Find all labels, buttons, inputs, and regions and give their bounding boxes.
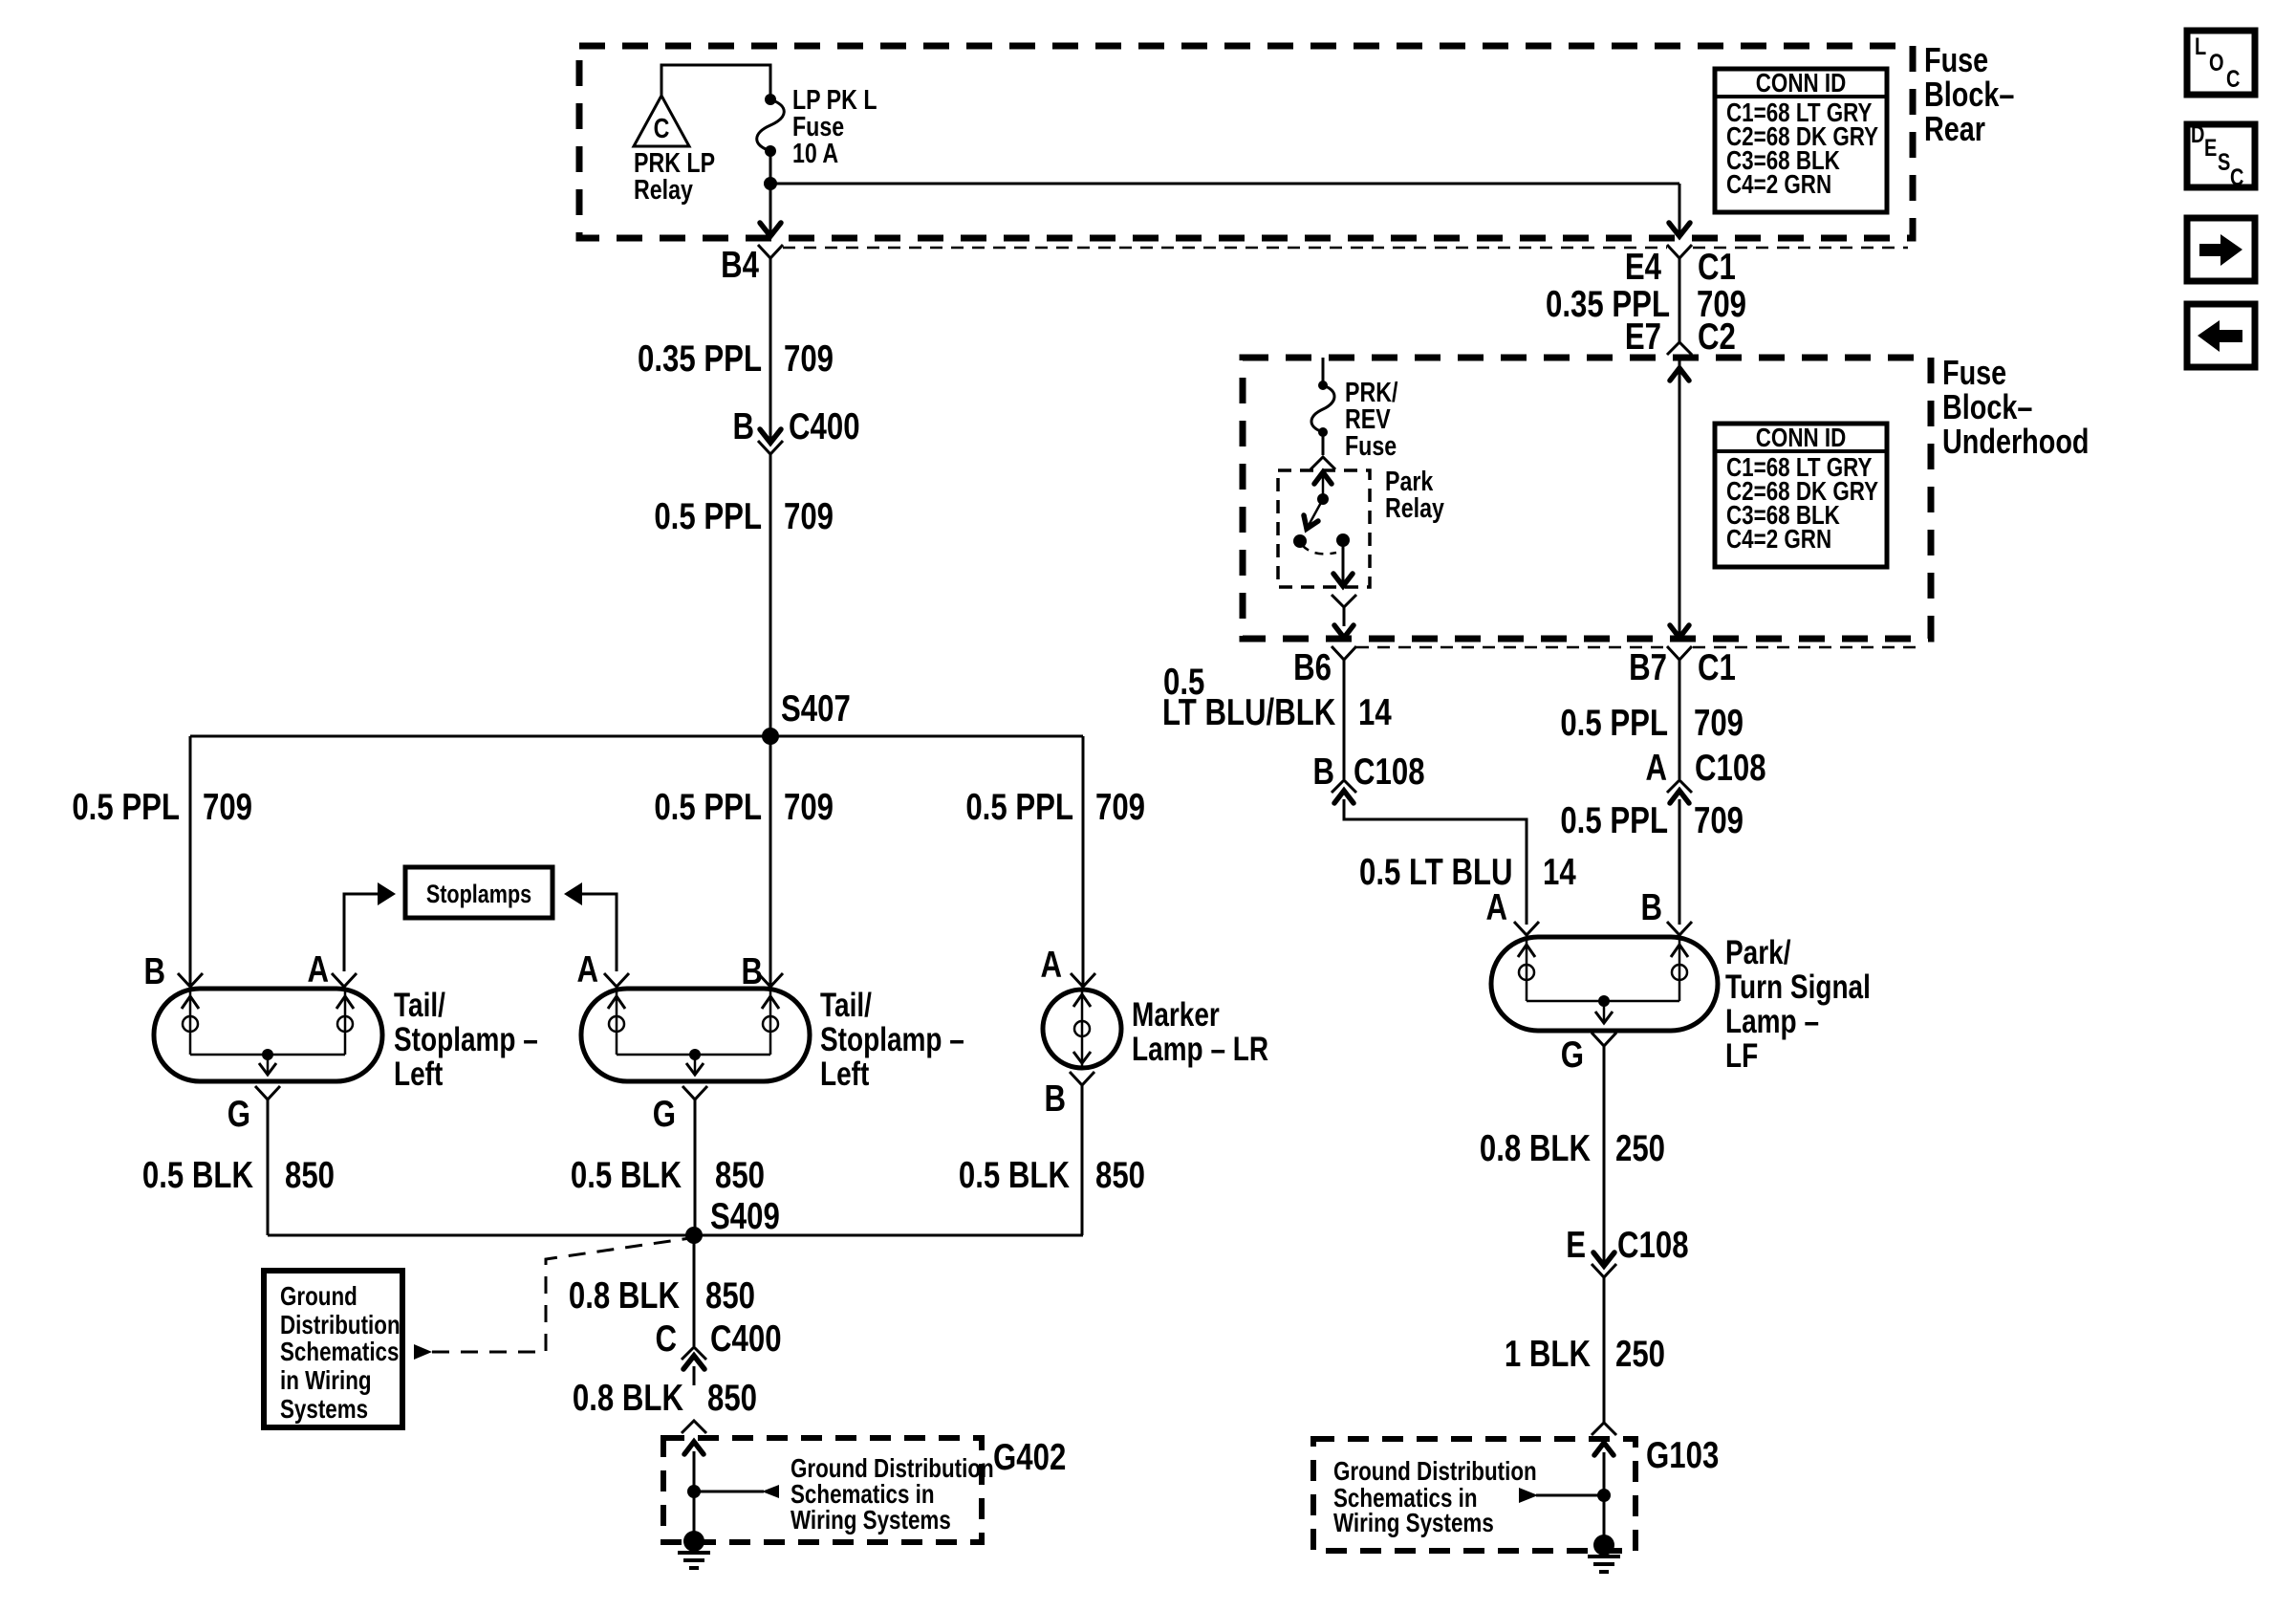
svg-text:in Wiring: in Wiring bbox=[280, 1366, 372, 1396]
svg-text:0.5 PPL: 0.5 PPL bbox=[1560, 800, 1668, 841]
wire: relay to fuse (top jog) bbox=[661, 65, 770, 99]
svg-text:S: S bbox=[2218, 149, 2230, 176]
connector B6 (female chevron) bbox=[1293, 646, 1356, 688]
wire: drop to E4 exit with arrow bbox=[1669, 184, 1690, 236]
svg-text:S407: S407 bbox=[781, 688, 851, 729]
svg-text:G: G bbox=[227, 1094, 250, 1135]
svg-text:G402: G402 bbox=[993, 1437, 1066, 1478]
icon: next arrow button bbox=[2187, 218, 2255, 281]
svg-text:CONN ID: CONN ID bbox=[1756, 424, 1847, 453]
svg-text:Distribution: Distribution bbox=[280, 1311, 401, 1340]
connector B4 (female chevron) bbox=[721, 245, 783, 286]
wire: B7 down, 0.5 PPL 709 bbox=[1560, 660, 1744, 779]
ground G103 (dashed box) bbox=[1313, 1435, 1719, 1551]
svg-text:0.5 PPL: 0.5 PPL bbox=[965, 787, 1073, 828]
svg-text:L: L bbox=[2195, 33, 2206, 60]
svg-text:Lamp – LR: Lamp – LR bbox=[1132, 1030, 1268, 1068]
terminal G lamp2 bbox=[653, 1086, 707, 1135]
wire: lamp2 G to S409, 0.5 BLK 850 bbox=[571, 1099, 765, 1235]
svg-text:C108: C108 bbox=[1617, 1225, 1689, 1266]
svg-text:B4: B4 bbox=[721, 245, 759, 286]
svg-text:D: D bbox=[2191, 121, 2204, 148]
svg-text:Stoplamps: Stoplamps bbox=[426, 881, 531, 909]
svg-text:250: 250 bbox=[1615, 1334, 1665, 1375]
ground G402 (dashed box) bbox=[663, 1437, 1066, 1542]
wire: C108 down to G103, 1 BLK 250 bbox=[1505, 1277, 1665, 1423]
connector B / C400 (arrow + chevron) bbox=[732, 406, 859, 454]
svg-text:14: 14 bbox=[1358, 692, 1392, 733]
lamp: tail/stoplamp - left (first) bbox=[154, 986, 538, 1093]
icon: LOC button bbox=[2187, 31, 2255, 95]
wire: fuse to junction bbox=[769, 151, 772, 184]
svg-text:14: 14 bbox=[1543, 852, 1576, 893]
svg-text:850: 850 bbox=[1095, 1155, 1145, 1196]
svg-text:709: 709 bbox=[1694, 800, 1744, 841]
svg-text:LT BLU/BLK: LT BLU/BLK bbox=[1162, 692, 1336, 733]
svg-text:G: G bbox=[1561, 1034, 1584, 1076]
svg-text:Systems: Systems bbox=[280, 1395, 368, 1425]
wire: lamp G down, 0.8 BLK 250 bbox=[1480, 1046, 1665, 1266]
svg-text:O: O bbox=[2209, 50, 2224, 76]
CONN ID table (rear) bbox=[1715, 69, 1887, 212]
fuse block - rear (dashed enclosure) bbox=[579, 46, 1913, 238]
wire: S409 down to C400, 0.8 BLK 850 bbox=[569, 1235, 755, 1346]
svg-text:LF: LF bbox=[1725, 1036, 1758, 1075]
svg-text:C108: C108 bbox=[1354, 751, 1425, 793]
connector chevron + arrow to underhood boundary bbox=[1332, 595, 1356, 638]
svg-text:Underhood: Underhood bbox=[1942, 422, 2089, 461]
connector chevron into G402 bbox=[682, 1421, 706, 1433]
svg-text:0.8 BLK: 0.8 BLK bbox=[569, 1275, 681, 1317]
svg-text:A: A bbox=[576, 949, 598, 991]
node: splice S409 bbox=[685, 1196, 780, 1244]
svg-text:Stoplamp –: Stoplamp – bbox=[394, 1020, 538, 1058]
svg-text:C400: C400 bbox=[789, 406, 860, 447]
svg-text:E7: E7 bbox=[1625, 316, 1661, 358]
svg-text:850: 850 bbox=[707, 1378, 757, 1419]
svg-text:E: E bbox=[1566, 1225, 1586, 1266]
svg-text:709: 709 bbox=[1694, 703, 1744, 744]
G103 internals: arrow, wire, junction, pointer, ground symbol bbox=[1519, 1443, 1620, 1572]
svg-text:Stoplamp –: Stoplamp – bbox=[820, 1020, 964, 1058]
svg-text:Block–: Block– bbox=[1924, 75, 2014, 114]
G402 internals: arrow, wire, junction, pointer, ground symbol bbox=[678, 1442, 779, 1568]
wire: E4 to E7, 0.35 PPL 709 bbox=[1546, 258, 1746, 342]
svg-text:Tail/: Tail/ bbox=[820, 986, 872, 1024]
svg-text:Left: Left bbox=[394, 1055, 444, 1093]
terminal G lamp1 bbox=[227, 1086, 280, 1135]
svg-text:C4=2 GRN: C4=2 GRN bbox=[1726, 525, 1831, 555]
wire: S407 distribution bus bbox=[190, 735, 1083, 738]
fuse block - underhood (dashed enclosure) bbox=[1243, 358, 1931, 639]
svg-text:Relay: Relay bbox=[1385, 491, 1444, 523]
connector boundary thin dashed line (underhood box bottom) bbox=[1356, 646, 1924, 649]
svg-text:B: B bbox=[1640, 887, 1662, 928]
svg-text:E4: E4 bbox=[1625, 247, 1661, 288]
wire: lamp1 A to stoplamps box with arrow bbox=[307, 882, 396, 991]
svg-text:A: A bbox=[1645, 748, 1667, 789]
svg-text:0.5 PPL: 0.5 PPL bbox=[654, 787, 762, 828]
svg-text:C400: C400 bbox=[710, 1318, 782, 1360]
svg-text:A: A bbox=[1485, 887, 1507, 928]
fuse PRK/REV Fuse bbox=[1311, 358, 1398, 462]
park relay (dashed box) bbox=[1278, 465, 1444, 587]
svg-text:G103: G103 bbox=[1646, 1435, 1719, 1476]
svg-text:Fuse: Fuse bbox=[1942, 353, 2006, 392]
svg-text:0.5 PPL: 0.5 PPL bbox=[654, 496, 762, 537]
wire: relay output exits relay box bbox=[1333, 540, 1353, 586]
svg-text:B7: B7 bbox=[1629, 647, 1667, 688]
svg-text:A: A bbox=[1040, 945, 1062, 986]
stoplamps reference box bbox=[405, 867, 552, 918]
svg-text:Schematics: Schematics bbox=[280, 1338, 399, 1367]
svg-text:C: C bbox=[654, 112, 670, 143]
svg-text:Lamp –: Lamp – bbox=[1725, 1002, 1819, 1040]
svg-text:850: 850 bbox=[715, 1155, 765, 1196]
wire: lamp1 G to S409, 0.5 BLK 850 bbox=[142, 1099, 335, 1235]
svg-text:0.5 PPL: 0.5 PPL bbox=[72, 787, 180, 828]
svg-text:Fuse: Fuse bbox=[1345, 429, 1397, 461]
connector chevron into park relay bbox=[1310, 457, 1335, 469]
wire: S409 ground bus bbox=[268, 1234, 1083, 1237]
svg-text:C1: C1 bbox=[1698, 647, 1736, 688]
wire label: 0.8 BLK 850 (to G402) bbox=[573, 1378, 757, 1419]
wire: B4 down to connector C400, 0.35 PPL 709 bbox=[638, 258, 834, 443]
node: junction dot below fuse bbox=[764, 177, 777, 190]
park relay internals: switch bbox=[1293, 472, 1350, 554]
svg-text:B: B bbox=[732, 406, 754, 447]
svg-text:C4=2 GRN: C4=2 GRN bbox=[1726, 170, 1831, 200]
connector E7 / C2 (chevron into underhood block) bbox=[1625, 316, 1736, 358]
ground distribution reference box (solid) bbox=[264, 1271, 402, 1427]
svg-text:B: B bbox=[1312, 751, 1334, 793]
svg-text:C: C bbox=[2230, 164, 2243, 191]
svg-text:C: C bbox=[655, 1318, 677, 1360]
svg-text:C: C bbox=[2226, 66, 2240, 93]
lamp: tail/stoplamp - left (second) bbox=[581, 986, 964, 1093]
svg-text:Park/: Park/ bbox=[1725, 933, 1791, 971]
connector chevron into G103 bbox=[1592, 1423, 1616, 1435]
lamp: park/turn signal lamp - LF bbox=[1491, 933, 1871, 1075]
svg-text:709: 709 bbox=[784, 787, 834, 828]
connector C / C400 (chevron + up arrow) bbox=[655, 1318, 781, 1385]
icon: previous arrow button bbox=[2187, 304, 2255, 367]
wire: underhood pass-through C2 to C1 with arrows bbox=[1670, 358, 1689, 638]
wire: C108 step over to lamp A, 0.5 LT BLU 14 bbox=[1344, 799, 1576, 935]
svg-text:Tail/: Tail/ bbox=[394, 986, 445, 1024]
svg-text:0.5 PPL: 0.5 PPL bbox=[1560, 703, 1668, 744]
svg-text:0.8 BLK: 0.8 BLK bbox=[1480, 1128, 1592, 1169]
wire: marker B to S409, 0.5 BLK 850 bbox=[959, 1085, 1145, 1235]
svg-text:1 BLK: 1 BLK bbox=[1505, 1334, 1592, 1375]
svg-text:B: B bbox=[143, 951, 165, 992]
svg-text:0.35 PPL: 0.35 PPL bbox=[638, 338, 762, 380]
svg-text:Ground Distribution: Ground Distribution bbox=[1333, 1457, 1537, 1487]
connector B7 / C1 (female chevron) bbox=[1629, 646, 1736, 688]
svg-text:Block–: Block– bbox=[1942, 387, 2032, 426]
connector E / C108 (arrow + chevron) bbox=[1566, 1225, 1688, 1277]
svg-text:C1: C1 bbox=[1698, 247, 1736, 288]
relay coil symbol (triangle) PRK LP Relay bbox=[634, 96, 715, 206]
svg-text:E: E bbox=[2204, 135, 2217, 162]
svg-text:B: B bbox=[741, 951, 763, 992]
svg-text:C108: C108 bbox=[1695, 748, 1766, 789]
reference pointer triangle and dashed leader to S409 bbox=[414, 1238, 690, 1360]
svg-text:850: 850 bbox=[705, 1275, 755, 1317]
svg-text:0.5 BLK: 0.5 BLK bbox=[142, 1155, 254, 1196]
label: Fuse Block-Rear bbox=[1924, 40, 2014, 148]
svg-text:Wiring Systems: Wiring Systems bbox=[791, 1506, 951, 1535]
svg-text:S409: S409 bbox=[710, 1196, 780, 1237]
svg-text:Wiring Systems: Wiring Systems bbox=[1333, 1509, 1494, 1538]
wire: drop to B4 exit with arrow bbox=[760, 184, 781, 236]
wire: branch to lamp1 B, 0.5 PPL 709 bbox=[72, 736, 252, 992]
svg-text:B: B bbox=[1044, 1078, 1066, 1120]
svg-text:B6: B6 bbox=[1293, 647, 1332, 688]
CONN ID table (underhood) bbox=[1715, 424, 1887, 567]
G103 reference text bbox=[1333, 1457, 1537, 1538]
node: splice S407 bbox=[762, 688, 851, 745]
svg-text:0.8 BLK: 0.8 BLK bbox=[573, 1378, 684, 1419]
svg-text:709: 709 bbox=[1095, 787, 1145, 828]
fuse LP PK L Fuse 10 A bbox=[757, 83, 877, 168]
svg-text:709: 709 bbox=[203, 787, 252, 828]
connector B / C108 (chevron + up arrow) bbox=[1312, 751, 1424, 803]
connector A / C108 (chevron + up arrow) bbox=[1645, 748, 1765, 803]
wire: C400 down to S407, 0.5 PPL 709 bbox=[654, 454, 834, 736]
wire: lamp2 A to stoplamps box with arrow bbox=[564, 882, 629, 991]
terminal G park/turn lamp bbox=[1561, 1033, 1616, 1076]
G402 reference text bbox=[791, 1454, 994, 1535]
wire: B6 down, 0.5 LT BLU/BLK 14 bbox=[1162, 660, 1392, 779]
icon: DESC button bbox=[2187, 121, 2255, 191]
svg-text:Ground: Ground bbox=[280, 1282, 357, 1312]
connector E4 / C1 (female chevron) bbox=[1625, 245, 1736, 288]
svg-text:0.5 BLK: 0.5 BLK bbox=[959, 1155, 1071, 1196]
svg-text:Fuse: Fuse bbox=[1924, 40, 1988, 79]
wire: horizontal feed to E4 bbox=[770, 183, 1679, 185]
svg-text:709: 709 bbox=[784, 496, 834, 537]
svg-text:C2: C2 bbox=[1698, 316, 1736, 358]
svg-text:Marker: Marker bbox=[1132, 995, 1220, 1034]
svg-text:709: 709 bbox=[784, 338, 834, 380]
svg-text:A: A bbox=[307, 949, 329, 991]
svg-text:Left: Left bbox=[820, 1055, 870, 1093]
terminal B marker lamp bbox=[1044, 1072, 1094, 1120]
wire: branch to marker lamp A, 0.5 PPL 709 bbox=[965, 736, 1145, 987]
svg-text:10 A: 10 A bbox=[792, 137, 838, 168]
wire: branch to lamp2 B, 0.5 PPL 709 bbox=[654, 736, 834, 992]
svg-text:0.5 BLK: 0.5 BLK bbox=[571, 1155, 682, 1196]
label: Fuse Block-Underhood bbox=[1942, 353, 2089, 461]
lamp: marker lamp - LR bbox=[1043, 990, 1268, 1068]
svg-text:250: 250 bbox=[1615, 1128, 1665, 1169]
svg-text:Rear: Rear bbox=[1924, 109, 1985, 148]
svg-text:Relay: Relay bbox=[634, 173, 693, 205]
wire: C108 down to lamp B, 0.5 PPL 709 bbox=[1560, 799, 1744, 935]
svg-text:850: 850 bbox=[285, 1155, 335, 1196]
svg-text:Turn Signal: Turn Signal bbox=[1725, 968, 1871, 1006]
connector boundary thin dashed line (rear box bottom) bbox=[783, 247, 1908, 250]
svg-text:G: G bbox=[653, 1094, 676, 1135]
svg-text:CONN ID: CONN ID bbox=[1756, 69, 1847, 98]
